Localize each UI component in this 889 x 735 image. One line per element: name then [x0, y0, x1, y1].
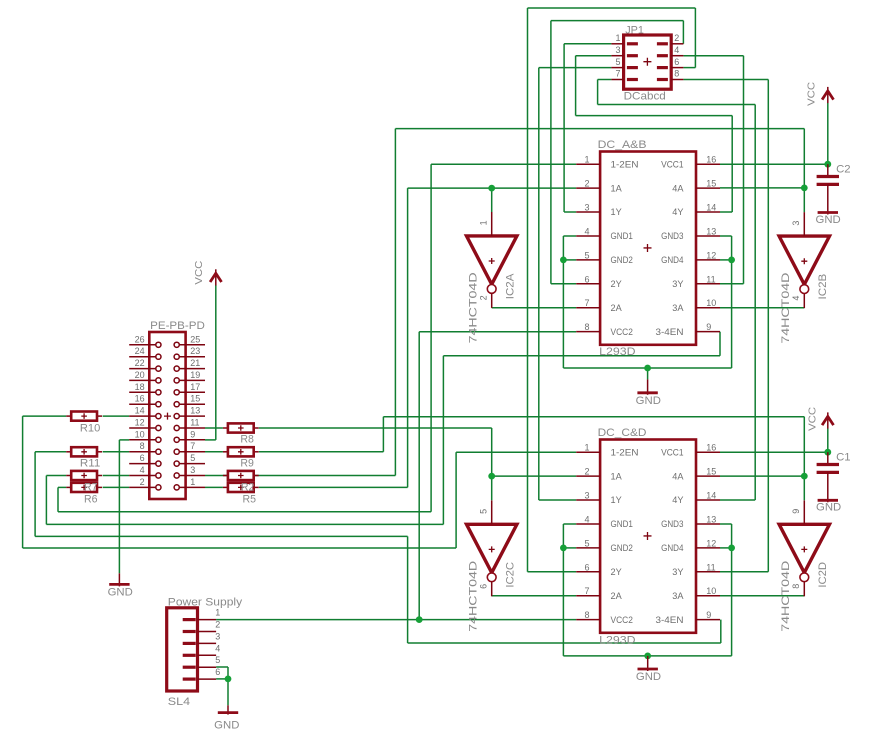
- wire R10 right lead to PE pin14: [103, 415, 130, 417]
- pin 6 PE-PB-PD: [129, 463, 156, 465]
- svg-text:2: 2: [215, 620, 220, 630]
- wire PE pin9 to VCC symbol: [205, 439, 216, 441]
- pin 6 SL4: [198, 678, 217, 680]
- connector SL4 body: [167, 608, 198, 691]
- svg-text:8: 8: [140, 441, 145, 451]
- svg-text:6: 6: [584, 562, 589, 572]
- svg-text:10: 10: [706, 586, 716, 596]
- origin cross PE-PB-PD: [164, 413, 171, 420]
- svg-text:VCC: VCC: [807, 407, 818, 431]
- origin cross IC2C: [489, 546, 495, 552]
- pin 21 PE-PB-PD: [179, 368, 205, 370]
- svg-text:GND1: GND1: [611, 519, 633, 529]
- svg-text:74HCT04D: 74HCT04D: [467, 561, 479, 632]
- pin 16 DC_C&D VCC1: [696, 451, 720, 453]
- ground GND symbol: [827, 212, 829, 214]
- inverter IC2C 74HCT04D triangle: [467, 524, 517, 572]
- origin cross IC2A: [489, 258, 495, 264]
- wire GND rail DC_C&D pins 4 5 12 13: [563, 523, 576, 525]
- svg-text:1: 1: [584, 443, 589, 453]
- svg-text:3-4EN: 3-4EN: [656, 327, 684, 337]
- svg-text:15: 15: [706, 467, 716, 477]
- svg-text:5: 5: [584, 538, 589, 548]
- resistor R2 body: [223, 475, 228, 477]
- node GND rail junction DC_A&B: [644, 365, 651, 372]
- pin 3 JP1: [611, 55, 623, 57]
- wire R6 right lead to PE pin2: [103, 486, 130, 488]
- svg-text:3: 3: [215, 631, 220, 641]
- svg-text:VCC1: VCC1: [661, 447, 683, 457]
- svg-text:R2: R2: [241, 481, 255, 493]
- pin 4 JP1: [671, 55, 683, 57]
- pin 8 PE-PB-PD: [129, 451, 156, 453]
- svg-text:6: 6: [140, 453, 145, 463]
- svg-text:GND: GND: [214, 720, 239, 732]
- svg-text:12: 12: [706, 250, 716, 260]
- svg-text:3A: 3A: [672, 591, 683, 601]
- pin 8 DC_C&D VCC2: [576, 619, 600, 621]
- svg-text:9: 9: [706, 610, 711, 620]
- svg-text:2: 2: [478, 295, 488, 300]
- pin 7 DC_C&D 2A: [576, 595, 600, 597]
- wire JP1 pin7 to 4Y DC_C&D: [598, 79, 612, 81]
- svg-text:3: 3: [615, 45, 620, 55]
- svg-text:DC_A&B: DC_A&B: [598, 139, 647, 151]
- power VCC symbol: [215, 269, 217, 285]
- svg-text:GND3: GND3: [661, 519, 683, 529]
- svg-text:6: 6: [674, 57, 679, 67]
- wire R8 left lead to PE pin11: [205, 427, 223, 429]
- svg-text:19: 19: [190, 370, 200, 380]
- pin 3 SL4: [198, 642, 217, 644]
- inverter IC2D 74HCT04D triangle: [779, 524, 829, 572]
- svg-text:3-4EN: 3-4EN: [656, 615, 684, 625]
- svg-text:4: 4: [584, 227, 589, 237]
- svg-text:R7: R7: [84, 481, 98, 493]
- svg-text:2: 2: [674, 33, 679, 43]
- pin 4 DC_A&B GND1: [576, 235, 600, 237]
- wire GND rail DC_A&B pins 4 5 12 13: [563, 235, 576, 237]
- svg-text:R9: R9: [240, 457, 254, 469]
- inverter IC2C bubble: [487, 573, 496, 582]
- pin 15 DC_A&B 4A: [696, 187, 720, 189]
- pin 14 PE-PB-PD: [129, 415, 156, 417]
- pin 18 PE-PB-PD: [129, 391, 156, 393]
- resistor R7 body: [66, 475, 71, 477]
- wire inverter IC2C output to 2A DC_C&D: [492, 595, 577, 597]
- pin 1 SL4: [198, 619, 217, 621]
- svg-text:R8: R8: [240, 434, 254, 446]
- pin 3 PE-PB-PD: [179, 475, 205, 477]
- ground GND symbol: [118, 573, 120, 586]
- svg-text:5: 5: [615, 57, 620, 67]
- pin 3 DC_A&B 1Y: [576, 211, 600, 213]
- svg-text:4: 4: [140, 465, 145, 475]
- svg-text:GND4: GND4: [661, 255, 683, 265]
- svg-text:22: 22: [135, 358, 145, 368]
- resistor R11 body: [66, 451, 71, 453]
- svg-text:GND2: GND2: [611, 543, 633, 553]
- pin 1 JP1: [611, 43, 623, 45]
- svg-text:14: 14: [706, 203, 716, 213]
- node IC2D input junction: [801, 473, 808, 480]
- wire PE pin10 to GND symbol: [119, 439, 129, 441]
- svg-text:8: 8: [584, 322, 589, 332]
- origin cross DC_C&D: [644, 532, 652, 540]
- svg-text:12: 12: [135, 418, 145, 428]
- wire VCC1 DC_C&D to VCC symbol and capacitor C1: [720, 451, 828, 453]
- svg-text:7: 7: [190, 441, 195, 451]
- svg-text:2Y: 2Y: [611, 567, 622, 577]
- pin 5 JP1: [611, 67, 623, 69]
- svg-text:3: 3: [791, 221, 801, 226]
- wire inverter IC2B output to 3A DC_A&B: [720, 307, 804, 309]
- svg-text:21: 21: [190, 358, 200, 368]
- svg-text:9: 9: [190, 429, 195, 439]
- svg-text:7: 7: [584, 298, 589, 308]
- svg-text:4: 4: [791, 296, 801, 301]
- svg-text:74HCT04D: 74HCT04D: [780, 273, 792, 344]
- pin 26 PE-PB-PD: [129, 344, 156, 346]
- power VCC symbol: [827, 412, 829, 428]
- pin 1 DC_C&D 1-2EN: [576, 451, 600, 453]
- svg-text:GND3: GND3: [661, 231, 683, 241]
- svg-text:14: 14: [706, 491, 716, 501]
- pin 2 DC_C&D 1A: [576, 475, 600, 477]
- svg-text:3: 3: [190, 465, 195, 475]
- svg-text:16: 16: [135, 394, 145, 404]
- pin 24 PE-PB-PD: [129, 356, 156, 358]
- pin 5 SL4: [198, 666, 217, 668]
- svg-text:2A: 2A: [611, 303, 622, 313]
- pin 16 DC_A&B VCC1: [696, 163, 720, 165]
- pin 6 DC_A&B 2Y: [576, 283, 600, 285]
- svg-text:5: 5: [215, 655, 220, 665]
- svg-text:VCC: VCC: [194, 261, 205, 285]
- svg-text:1-2EN: 1-2EN: [611, 447, 639, 457]
- svg-text:24: 24: [135, 346, 145, 356]
- inverter IC2D bubble: [800, 573, 809, 582]
- svg-text:7: 7: [615, 69, 620, 79]
- pin 4 SL4: [198, 654, 217, 656]
- pin 2 DC_A&B 1A: [576, 187, 600, 189]
- svg-text:3Y: 3Y: [672, 279, 683, 289]
- svg-text:IC2B: IC2B: [817, 274, 829, 300]
- pin 1 DC_A&B 1-2EN: [576, 163, 600, 165]
- svg-text:9: 9: [706, 322, 711, 332]
- svg-text:4Y: 4Y: [672, 495, 683, 505]
- ground GND symbol: [827, 500, 829, 502]
- pin 19 PE-PB-PD: [179, 379, 205, 381]
- pin 6 DC_C&D 2Y: [576, 571, 600, 573]
- svg-text:L293D: L293D: [599, 346, 636, 358]
- svg-text:14: 14: [135, 406, 145, 416]
- ground GND symbol: [227, 705, 229, 714]
- svg-text:1Y: 1Y: [611, 207, 622, 217]
- svg-text:R6: R6: [84, 493, 98, 505]
- pin 15 DC_C&D 4A: [696, 475, 720, 477]
- wire inverter IC2D output to 3A DC_C&D: [720, 595, 804, 597]
- pin 11 DC_A&B 3Y: [696, 283, 720, 285]
- node SL4 GND junction: [225, 676, 232, 683]
- node IC2B input junction: [801, 185, 808, 192]
- pin 10 PE-PB-PD: [129, 439, 156, 441]
- node GND3-GND4 junction DC_A&B: [728, 257, 735, 264]
- svg-text:C1: C1: [836, 451, 851, 463]
- svg-text:IC2D: IC2D: [817, 562, 829, 588]
- svg-text:16: 16: [706, 443, 716, 453]
- node VCC1-C2 junction: [824, 161, 831, 168]
- svg-text:VCC: VCC: [806, 82, 817, 106]
- pin 7 DC_A&B 2A: [576, 307, 600, 309]
- pin 5 PE-PB-PD: [179, 463, 205, 465]
- pin 10 DC_C&D 3A: [696, 595, 720, 597]
- svg-text:IC2C: IC2C: [505, 562, 517, 588]
- pin 5 input IC2C: [491, 500, 493, 524]
- pin 25 PE-PB-PD: [179, 344, 205, 346]
- svg-text:23: 23: [190, 346, 200, 356]
- pin 9 input IC2D: [803, 500, 805, 524]
- wire VCC1 DC_A&B to VCC symbol and capacitor C2: [720, 163, 828, 165]
- svg-text:6: 6: [215, 667, 220, 677]
- svg-text:1A: 1A: [611, 183, 622, 193]
- pin 9 DC_C&D 3-4EN: [696, 619, 720, 621]
- svg-text:11: 11: [706, 274, 715, 284]
- resistor R5 body: [223, 486, 228, 488]
- node IC2C input junction: [488, 473, 495, 480]
- connector PE-PB-PD body: [149, 332, 185, 499]
- svg-text:5: 5: [478, 509, 488, 514]
- svg-text:15: 15: [190, 394, 200, 404]
- svg-text:1: 1: [190, 477, 195, 487]
- pin 17 PE-PB-PD: [179, 391, 205, 393]
- ground GND symbol: [647, 656, 649, 671]
- pin 5 DC_C&D GND2: [576, 547, 600, 549]
- pin 3 input IC2B: [803, 212, 805, 236]
- wire JP1 pin3 to 4Y DC_A&B: [576, 55, 612, 57]
- connector JP1 body: [624, 35, 672, 89]
- pin 11 PE-PB-PD: [179, 427, 205, 429]
- svg-text:1A: 1A: [611, 471, 622, 481]
- wire R10 to 1-2EN DC_C&D: [23, 415, 67, 417]
- svg-text:8: 8: [674, 69, 679, 79]
- pin 5 DC_A&B GND2: [576, 259, 600, 261]
- pin 4 output IC2B: [803, 294, 805, 309]
- svg-text:DC_C&D: DC_C&D: [598, 427, 647, 439]
- svg-text:26: 26: [135, 334, 145, 344]
- wire JP1 pin6 to 2Y DC_C&D (net to DCabcd pad 6): [683, 67, 695, 69]
- pin 12 PE-PB-PD: [129, 427, 156, 429]
- pin 8 output IC2D: [803, 582, 805, 597]
- inverter IC2A bubble: [487, 285, 496, 294]
- resistor R9 body: [223, 451, 228, 453]
- svg-text:1: 1: [215, 608, 220, 618]
- svg-text:2: 2: [584, 467, 589, 477]
- pin 13 DC_A&B GND3: [696, 235, 720, 237]
- svg-text:C2: C2: [836, 164, 851, 176]
- svg-text:4: 4: [584, 515, 589, 525]
- svg-text:GND1: GND1: [611, 231, 633, 241]
- svg-text:R10: R10: [80, 423, 100, 435]
- svg-text:17: 17: [190, 382, 200, 392]
- pin 20 PE-PB-PD: [129, 379, 156, 381]
- origin cross DC_A&B: [644, 244, 652, 252]
- svg-text:4A: 4A: [672, 471, 683, 481]
- svg-text:25: 25: [190, 334, 200, 344]
- node IC2A input junction: [488, 185, 495, 192]
- svg-text:PE-PB-PD: PE-PB-PD: [150, 320, 205, 332]
- node GND1-GND2 junction DC_A&B: [560, 257, 567, 264]
- svg-text:GND2: GND2: [611, 255, 633, 265]
- origin cross IC2D: [801, 546, 807, 552]
- svg-text:10: 10: [706, 298, 716, 308]
- wire VCC2 net: SL4 pin1 to VCC2 DC_A&B and DC_C&D: [216, 619, 576, 621]
- wire SL4 pins 5 and 6 to GND symbol: [216, 666, 228, 668]
- pin 1 input IC2A: [491, 212, 493, 236]
- svg-text:13: 13: [706, 227, 716, 237]
- svg-text:2: 2: [584, 179, 589, 189]
- wire R6 to 1-2EN DC_A&B: [58, 486, 66, 488]
- inverter IC2B 74HCT04D triangle: [779, 236, 829, 284]
- svg-text:VCC1: VCC1: [661, 159, 683, 169]
- svg-text:10: 10: [135, 429, 145, 439]
- pin 9 PE-PB-PD: [179, 439, 205, 441]
- svg-text:11: 11: [706, 562, 715, 572]
- wire JP1 pin5 to 1Y DC_C&D: [539, 67, 612, 69]
- wire PE pin1 / R5 to 1A DC_A&B and inverter IC2A input: [259, 486, 408, 488]
- svg-text:2A: 2A: [611, 591, 622, 601]
- wire R11 to 3-4EN DC_C&D: [35, 451, 66, 453]
- wire R5 left lead to PE pin1: [205, 486, 223, 488]
- svg-text:20: 20: [135, 370, 145, 380]
- node VCC2 junction: [416, 616, 423, 623]
- pin 14 DC_C&D 4Y: [696, 499, 720, 501]
- IC DC_A&B body L293D: [600, 152, 696, 345]
- pin 6 JP1: [671, 67, 683, 69]
- svg-text:1Y: 1Y: [611, 495, 622, 505]
- svg-text:R5: R5: [243, 493, 257, 505]
- pin 13 DC_C&D GND3: [696, 523, 720, 525]
- resistor R6 body: [66, 486, 71, 488]
- ground GND symbol: [647, 379, 649, 394]
- wire inverter IC2A output to 2A DC_A&B: [492, 307, 577, 309]
- pin 7 JP1: [611, 79, 623, 81]
- pin 16 PE-PB-PD: [129, 403, 156, 405]
- node GND rail junction DC_C&D: [644, 653, 651, 660]
- svg-text:VCC2: VCC2: [611, 615, 633, 625]
- svg-text:1-2EN: 1-2EN: [611, 159, 639, 169]
- pin 13 PE-PB-PD: [179, 415, 205, 417]
- svg-text:1: 1: [584, 155, 589, 165]
- svg-text:4A: 4A: [672, 183, 683, 193]
- pin 2 output IC2A: [491, 293, 493, 308]
- svg-text:IC2A: IC2A: [505, 273, 517, 299]
- svg-text:13: 13: [706, 515, 716, 525]
- svg-text:4Y: 4Y: [672, 207, 683, 217]
- pin 22 PE-PB-PD: [129, 368, 156, 370]
- svg-text:3: 3: [584, 491, 589, 501]
- wire R9 to 4A DC_C&D and inverter IC2D input (middle bus): [259, 451, 384, 453]
- wire R7 to 3-4EN DC_A&B: [46, 475, 66, 477]
- pin 4 DC_C&D GND1: [576, 523, 600, 525]
- node GND3-GND4 junction DC_C&D: [728, 545, 735, 552]
- svg-text:74HCT04D: 74HCT04D: [467, 272, 479, 343]
- capacitor C1 lead and plates: [827, 452, 829, 464]
- svg-text:VCC2: VCC2: [611, 327, 633, 337]
- svg-text:GND: GND: [636, 671, 661, 683]
- svg-text:7: 7: [584, 586, 589, 596]
- svg-text:6: 6: [584, 274, 589, 284]
- pin 8 DC_A&B VCC2: [576, 331, 600, 333]
- svg-text:18: 18: [135, 382, 145, 392]
- svg-text:5: 5: [190, 453, 195, 463]
- pin 15 PE-PB-PD: [179, 403, 205, 405]
- node VCC1-C1 junction: [824, 449, 831, 456]
- origin cross JP1: [643, 58, 651, 66]
- svg-text:8: 8: [791, 584, 801, 589]
- svg-text:3A: 3A: [672, 303, 683, 313]
- node GND1-GND2 junction DC_C&D: [560, 545, 567, 552]
- wire R8 to 1A DC_C&D and inverter IC2C input: [259, 427, 492, 429]
- svg-text:3Y: 3Y: [672, 567, 683, 577]
- svg-text:R11: R11: [80, 458, 100, 470]
- origin cross IC2B: [801, 258, 807, 264]
- svg-text:GND: GND: [636, 395, 661, 407]
- IC DC_C&D body L293D: [600, 440, 696, 633]
- wire R7 right lead to PE pin4: [103, 475, 130, 477]
- svg-text:GND4: GND4: [661, 543, 683, 553]
- pin 8 JP1: [671, 79, 683, 81]
- svg-text:11: 11: [190, 418, 199, 428]
- svg-text:L293D: L293D: [599, 635, 636, 647]
- pin 10 DC_A&B 3A: [696, 307, 720, 309]
- svg-text:15: 15: [706, 179, 716, 189]
- wire JP1 pin1 to 1Y DC_A&B: [564, 43, 611, 45]
- pin 12 DC_C&D GND4: [696, 547, 720, 549]
- wire R9 left lead to PE pin7: [205, 451, 223, 453]
- pin 1 PE-PB-PD: [179, 486, 205, 488]
- svg-text:74HCT04D: 74HCT04D: [780, 561, 792, 632]
- pin 3 DC_C&D 1Y: [576, 499, 600, 501]
- svg-text:8: 8: [584, 610, 589, 620]
- pin 4 PE-PB-PD: [129, 475, 156, 477]
- power VCC symbol: [827, 87, 829, 103]
- pin 9 DC_A&B 3-4EN: [696, 331, 720, 333]
- pin 23 PE-PB-PD: [179, 356, 205, 358]
- pin 14 DC_A&B 4Y: [696, 211, 720, 213]
- wire JP1 pin4 to 3Y DC_A&B: [683, 55, 743, 57]
- inverter IC2B bubble: [800, 285, 809, 294]
- svg-text:12: 12: [706, 538, 716, 548]
- wire JP1 pin2 to 2Y DC_A&B: [682, 21, 684, 44]
- svg-text:4: 4: [215, 643, 220, 653]
- pin 12 DC_A&B GND4: [696, 259, 720, 261]
- wire JP1 pin8 to 3Y DC_C&D: [683, 79, 768, 81]
- pin 6 output IC2C: [491, 582, 493, 597]
- pin 2 SL4: [198, 631, 217, 633]
- svg-text:GND: GND: [816, 214, 841, 226]
- svg-text:DCabcd: DCabcd: [624, 91, 666, 103]
- wire R11 right lead to PE pin8: [103, 451, 130, 453]
- svg-text:6: 6: [478, 584, 488, 589]
- svg-text:GND: GND: [816, 501, 841, 513]
- svg-text:1: 1: [615, 33, 620, 43]
- resistor R10 body: [66, 415, 71, 417]
- svg-text:2Y: 2Y: [611, 279, 622, 289]
- svg-text:16: 16: [706, 155, 716, 165]
- pin 11 DC_C&D 3Y: [696, 571, 720, 573]
- svg-text:SL4: SL4: [168, 696, 190, 708]
